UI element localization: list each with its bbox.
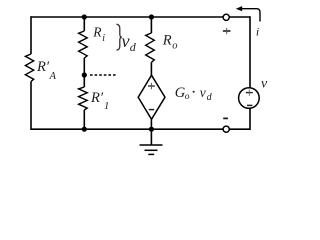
wire Ri to node (83, 58, 85, 87)
current arrow i (241, 9, 261, 22)
diamond minus (149, 109, 154, 111)
svg-text:d: d (207, 92, 213, 103)
node dot mid (82, 72, 87, 77)
resistor R'A (25, 54, 33, 82)
svg-text:R′: R′ (90, 90, 104, 106)
wire R'1 bottom (83, 110, 85, 129)
node dot Ro top (149, 14, 154, 19)
svg-text:o: o (185, 92, 190, 102)
plus terminal label (223, 30, 231, 32)
resistor Ri (79, 31, 88, 58)
wire top (31, 16, 250, 18)
node dot Ri top (82, 14, 87, 19)
wire Ro top (150, 17, 152, 33)
svg-text:i: i (102, 33, 105, 44)
terminal top (223, 14, 229, 20)
wire bottom (31, 128, 250, 130)
svg-text:A: A (49, 71, 57, 82)
wire Ro to diamond (150, 62, 152, 76)
minus terminal label (223, 117, 228, 119)
wire diamond to bottom (150, 119, 152, 129)
svg-text:R: R (92, 25, 102, 40)
voltage source v (239, 88, 260, 109)
wire right upper (249, 16, 251, 88)
ground (150, 129, 152, 145)
svg-text:v: v (200, 85, 206, 100)
wire left lower (30, 82, 32, 131)
dependent source diamond (138, 75, 165, 119)
svg-text:R: R (162, 33, 172, 49)
wire left (30, 16, 32, 54)
wire right lower (249, 108, 251, 130)
brace vd (117, 24, 122, 50)
diamond plus (148, 85, 155, 87)
svg-text:d: d (130, 40, 137, 54)
svg-text:v: v (261, 77, 268, 92)
dotted line (90, 74, 116, 76)
svg-text:R′: R′ (36, 59, 50, 75)
vsource plus (246, 92, 253, 94)
node dot diamond bottom (149, 127, 154, 132)
svg-text:o: o (172, 40, 177, 51)
wire Ri top (83, 17, 85, 31)
vsource minus (247, 104, 252, 106)
svg-text:v: v (122, 31, 130, 51)
node dot R'1 bottom (82, 127, 87, 132)
svg-text:1: 1 (104, 101, 109, 112)
svg-text:i: i (256, 24, 259, 38)
resistor R'1 (79, 87, 88, 110)
resistor Ro (146, 33, 155, 62)
terminal bottom (223, 126, 229, 132)
